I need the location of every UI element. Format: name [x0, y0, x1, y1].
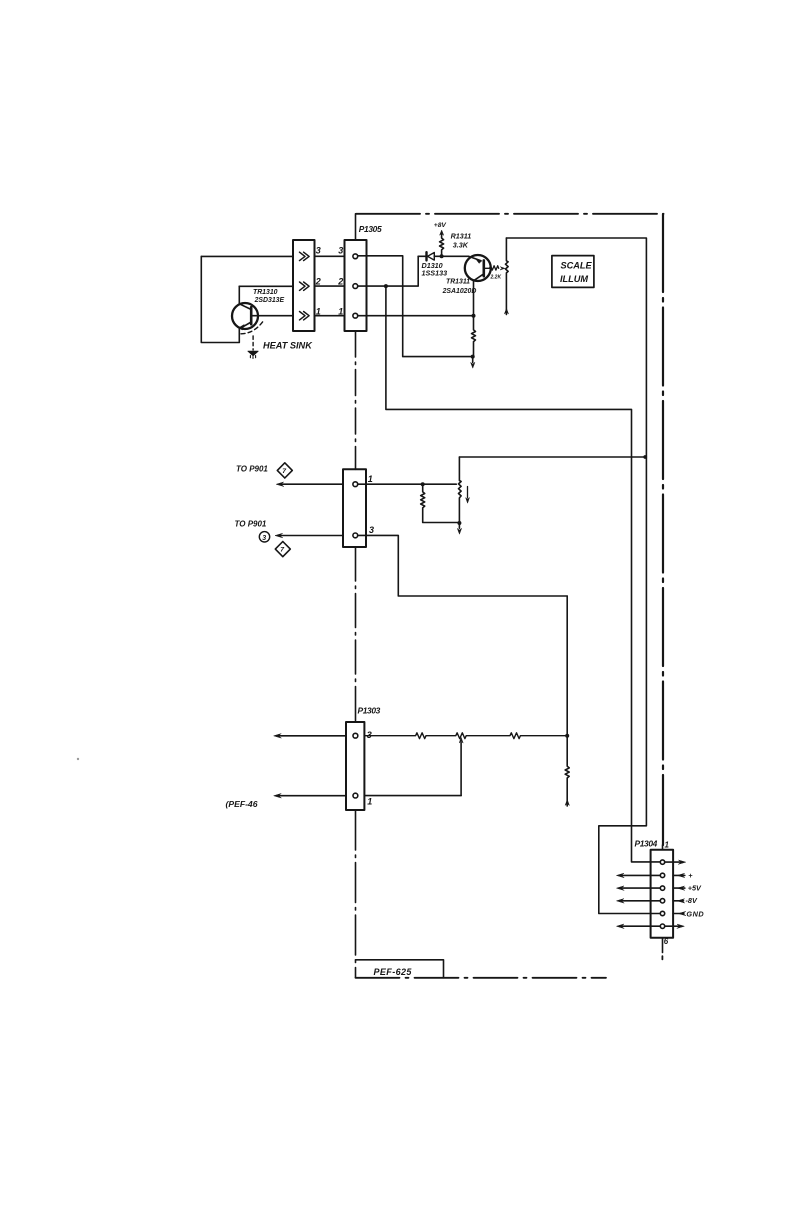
svg-text:P1303: P1303: [358, 706, 381, 716]
svg-text:2.2K: 2.2K: [490, 275, 502, 281]
svg-text:2SD313E: 2SD313E: [254, 297, 285, 304]
svg-text:+5V: +5V: [688, 883, 702, 892]
svg-text:3: 3: [338, 246, 343, 256]
svg-text:1: 1: [367, 797, 372, 807]
svg-text:R1311: R1311: [451, 231, 472, 240]
svg-text:TO P901: TO P901: [235, 520, 267, 529]
svg-text:3: 3: [316, 246, 321, 256]
svg-text:GND: GND: [686, 909, 704, 918]
svg-text:TR1311: TR1311: [446, 279, 470, 286]
svg-text:PEF-625: PEF-625: [374, 967, 413, 977]
svg-text:3.3K: 3.3K: [453, 241, 469, 250]
svg-text:2: 2: [315, 277, 321, 287]
svg-text:-8V: -8V: [686, 896, 698, 905]
svg-text:TO P901: TO P901: [236, 465, 268, 474]
svg-text:ILLUM: ILLUM: [560, 274, 588, 284]
svg-text:(PEF-46: (PEF-46: [226, 799, 258, 809]
svg-text:P1305: P1305: [359, 224, 382, 234]
svg-text:SCALE: SCALE: [561, 261, 593, 271]
svg-text:7: 7: [282, 468, 287, 475]
svg-text:+8V: +8V: [434, 222, 447, 229]
svg-text:2SA1020D: 2SA1020D: [442, 288, 477, 295]
svg-text:2: 2: [337, 277, 343, 287]
svg-text:3: 3: [262, 535, 266, 542]
svg-text:1: 1: [338, 307, 343, 317]
svg-text:1: 1: [316, 307, 321, 317]
svg-text:6: 6: [664, 937, 669, 946]
svg-text:3: 3: [369, 525, 374, 535]
svg-text:7: 7: [280, 547, 285, 554]
svg-text:+: +: [688, 871, 693, 880]
svg-text:1: 1: [665, 841, 670, 850]
svg-text:1SS133: 1SS133: [422, 269, 448, 278]
svg-text:P1304: P1304: [635, 839, 658, 849]
svg-text:TR1310: TR1310: [253, 289, 278, 296]
svg-text:1: 1: [368, 474, 373, 484]
svg-text:3: 3: [367, 730, 372, 740]
svg-text:HEAT SINK: HEAT SINK: [263, 341, 313, 351]
